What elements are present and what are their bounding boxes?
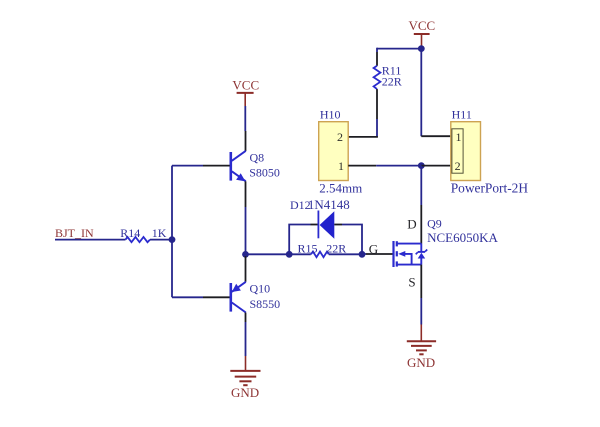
svg-text:R15: R15 [298, 242, 318, 256]
wire VCC top horizontal [377, 48, 421, 50]
connector H11 [451, 107, 529, 195]
svg-text:1: 1 [338, 159, 344, 173]
wire R11 top pin (black) [376, 52, 378, 66]
svg-text:S8550: S8550 [250, 297, 281, 311]
wire Q9 drain pin (black) [420, 205, 422, 244]
svg-text:S: S [408, 274, 415, 289]
power port VCC (above Q8) [232, 78, 259, 107]
node junction top VCC [418, 45, 425, 52]
svg-text:1N4148: 1N4148 [308, 197, 350, 212]
svg-text:2.54mm: 2.54mm [319, 181, 362, 196]
svg-text:GND: GND [231, 385, 259, 400]
wire Q8 base pin (black) [203, 165, 230, 167]
svg-text:22R: 22R [382, 75, 402, 89]
resistor R14 1K [120, 226, 167, 242]
node right of R15 [359, 251, 366, 258]
wire Q8 emitter pin (black) [245, 181, 247, 207]
wire Q10 collector pin (black) [245, 313, 247, 323]
wire D12 branch across and down (right) [342, 225, 362, 255]
wire left vertical base rail [171, 166, 173, 298]
wire Q10 base pin (black) [203, 296, 230, 298]
wire Q10 collector to GND [245, 322, 247, 356]
resistor R11 [374, 63, 402, 89]
wire Q9 gate pin (black) [366, 253, 394, 255]
svg-text:VCC: VCC [409, 18, 436, 33]
ground GND (left, under Q10) [230, 356, 260, 400]
svg-text:VCC: VCC [232, 78, 259, 93]
wire junction down to Q9 drain [420, 166, 422, 205]
node emitter junction [242, 251, 249, 258]
wire right vertical to H11 pin1 [420, 49, 422, 137]
wire D12 branch up and across (left) [289, 225, 310, 255]
wire VCC to Q8 collector [244, 106, 246, 131]
svg-text:H11: H11 [452, 107, 472, 121]
svg-text:G: G [369, 241, 378, 256]
connector H10 [319, 107, 363, 195]
svg-text:Q8: Q8 [250, 151, 265, 165]
svg-text:2: 2 [337, 130, 343, 144]
mosfet Q9 NCE6050KA [394, 216, 499, 289]
resistor R15 22R [289, 242, 362, 258]
wire H10 pin 2 (black pin) [348, 136, 378, 138]
wire emitter junction to D12/R15 left node [246, 253, 290, 255]
wire Q8 collector pin (black) [245, 131, 247, 151]
wire H10 pin1 to junction [376, 165, 421, 167]
wire R11 bottom to H10 corner [376, 119, 378, 137]
wire to Q10 base [172, 296, 203, 298]
svg-text:1K: 1K [152, 226, 167, 240]
node base junction [169, 236, 176, 243]
svg-text:NCE6050KA: NCE6050KA [427, 230, 498, 245]
wire Q8 emitter to junction [245, 207, 247, 254]
wire BJT_IN to R14 [55, 239, 126, 241]
wire H10 pin 1 (black pin) [348, 165, 376, 167]
power port VCC (top right) [409, 18, 436, 46]
svg-text:Q9: Q9 [427, 216, 442, 230]
svg-text:Q10: Q10 [250, 282, 271, 296]
transistor Q8 S8050 (NPN) [231, 151, 280, 182]
wire R11 top lead [376, 48, 378, 52]
transistor Q10 S8550 (PNP) [231, 282, 280, 313]
svg-text:PowerPort-2H: PowerPort-2H [451, 180, 529, 195]
node left of R15 [286, 251, 293, 258]
svg-text:D: D [407, 217, 416, 232]
node label G [369, 241, 378, 256]
node junction mid right [418, 162, 425, 169]
svg-text:BJT_IN: BJT_IN [55, 226, 94, 240]
svg-text:GND: GND [407, 355, 435, 370]
svg-text:2: 2 [455, 159, 461, 173]
net label BJT_IN [55, 226, 94, 240]
diode D12 1N4148 [290, 197, 350, 239]
wire H11 pin 2 (black pin) [421, 165, 451, 167]
svg-text:1: 1 [456, 130, 462, 144]
svg-text:22R: 22R [326, 242, 346, 256]
wire to Q8 base [172, 165, 203, 167]
wire H11 pin 1 (black pin) [421, 135, 451, 137]
svg-text:S8050: S8050 [249, 165, 280, 179]
svg-text:H10: H10 [320, 107, 341, 121]
wire Q9 source pin (black) [420, 265, 422, 298]
wire Q9 source to GND [420, 298, 422, 325]
wire R14 to junction [150, 239, 172, 241]
wire Q10 emitter pin (black) [245, 256, 247, 282]
svg-text:R14: R14 [120, 226, 140, 240]
ground GND (right, under Q9) [407, 325, 436, 371]
wire gate [362, 253, 366, 255]
wire R11 bottom lead to H10 pin2 corner [376, 89, 378, 119]
